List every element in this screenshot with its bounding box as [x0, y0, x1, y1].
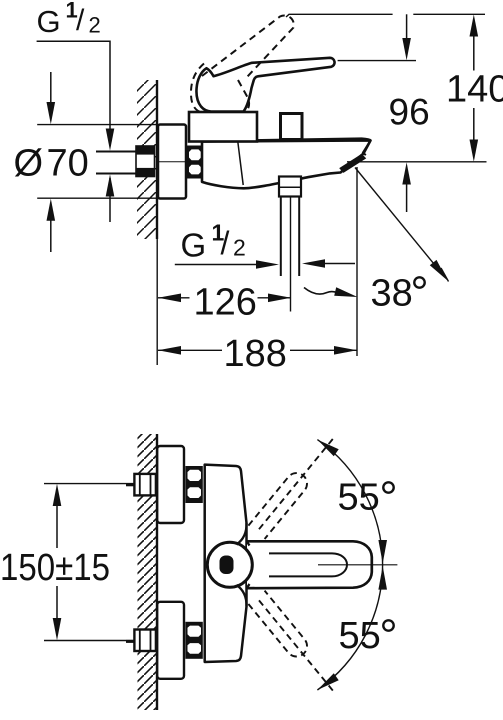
- lever top surface inner line: [269, 553, 347, 576]
- escutcheon rosette Ø70 (side view): [158, 125, 186, 199]
- 38 degree direction line with arrow: [355, 168, 444, 277]
- dimension 126 line and arrows: [158, 297, 291, 299]
- shower hose connector block: [279, 177, 301, 197]
- shower hose center line: [290, 197, 292, 312]
- G1/2 leader line with arrows to supply pipe: [37, 41, 110, 222]
- svg-text:G: G: [37, 4, 61, 39]
- aerator outlet (dark) at spout tip: [339, 154, 366, 173]
- arc end arrowheads: [317, 440, 338, 457]
- svg-text:126: 126: [194, 282, 257, 324]
- svg-text:/: /: [221, 225, 230, 261]
- wall face line (side view): [156, 80, 158, 239]
- svg-text:55: 55: [339, 615, 381, 657]
- svg-text:2: 2: [233, 235, 246, 261]
- svg-text:140: 140: [446, 69, 503, 111]
- svg-text:/: /: [76, 4, 85, 37]
- body/spout seam line: [238, 142, 243, 185]
- arc center arrowheads at lever centerline: [378, 540, 387, 564]
- upper threaded union nipple: [185, 466, 202, 503]
- handle boss circle: [207, 542, 252, 587]
- lower threaded union nipple: [185, 622, 202, 659]
- wall face line (front view): [156, 434, 158, 710]
- lever handle, solid (side view): [196, 58, 334, 112]
- label G 1/2 (shower hose thread): [181, 220, 246, 264]
- lever handle solid (front view): [247, 541, 372, 588]
- mixer body and spout outline (side view): [202, 141, 371, 189]
- extension line at handle tip level: [338, 60, 416, 62]
- centerline through union: [158, 161, 204, 163]
- dimension text 188: [222, 339, 290, 368]
- wall face extension line down to 188 dimension: [156, 239, 158, 365]
- svg-text:Ø: Ø: [14, 143, 44, 185]
- cartridge housing under handle: [189, 112, 257, 142]
- svg-text:188: 188: [224, 333, 287, 375]
- lower S-union escutcheon: [157, 602, 184, 679]
- body top edge (thick): [202, 139, 371, 142]
- svg-text:70: 70: [47, 143, 89, 185]
- svg-text:G: G: [181, 226, 207, 263]
- svg-text:96: 96: [389, 92, 430, 133]
- wall hatch (side view): [137, 80, 157, 239]
- lower hex nut: [126, 630, 156, 652]
- dimension 96 arrows: [406, 14, 408, 42]
- mixer body plate (front view): [205, 465, 247, 662]
- wall hatch (front view): [138, 434, 158, 710]
- dimension text 126: [190, 287, 258, 316]
- dimension Ø70 extension lines: [37, 125, 158, 199]
- dashed lever position -55deg (lower): [248, 591, 334, 692]
- handle cap detail (dark): [220, 556, 234, 575]
- shower hose outlet pipe: [281, 197, 299, 277]
- hex nut on supply pipe: [136, 146, 155, 177]
- boss fillets: [237, 523, 250, 607]
- spout tip face line: [363, 141, 371, 156]
- threaded union nipple (side view): [187, 146, 204, 179]
- dimension 150±15 extension lines: [44, 484, 134, 641]
- lever center line: [318, 564, 397, 566]
- extension line at spout tip (vertical): [356, 167, 358, 356]
- rotation arc 55deg both sides: [317, 440, 382, 690]
- svg-text:2: 2: [89, 13, 101, 38]
- supply pipe in wall: [96, 152, 137, 174]
- dimension 140 line and arrows: [473, 33, 475, 143]
- dimension 188 line and arrows: [158, 349, 357, 351]
- upper hex nut: [126, 474, 156, 496]
- svg-text:38: 38: [371, 273, 413, 315]
- extension line at raised handle top: [286, 14, 485, 17]
- dimension 150±15 line and arrows: [56, 502, 58, 622]
- 38 degree wavy leader arrow: [304, 288, 342, 296]
- svg-text:150±15: 150±15: [0, 547, 110, 589]
- lever handle raised position (dashed): [191, 15, 294, 112]
- upper S-union escutcheon: [157, 446, 184, 523]
- svg-text:55: 55: [338, 477, 380, 519]
- dimension Ø70 arrows: [50, 72, 52, 252]
- diverter knob on body top: [281, 114, 303, 140]
- extension line at spout outlet level: [347, 161, 487, 163]
- label G 1/2 (wall supply thread): [37, 0, 101, 39]
- dashed lever position +55deg (upper): [248, 438, 334, 540]
- G1/2 hose leader with arrows: [175, 264, 261, 266]
